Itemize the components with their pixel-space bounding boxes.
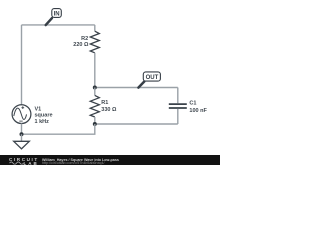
junction node at V1/ground [20, 132, 24, 136]
svg-text:1 kHz: 1 kHz [35, 119, 50, 125]
CircuitLab logo [9, 158, 41, 166]
label C1 value [189, 101, 207, 114]
svg-text:330 Ω: 330 Ω [101, 107, 117, 113]
ground symbol [14, 141, 30, 149]
svg-text:220 Ω: 220 Ω [73, 42, 89, 48]
wire bottom right from R1 to C1 [95, 123, 178, 125]
footer attribution bar [0, 155, 220, 165]
wire bottom jog from R1 node down and left to V1 [22, 124, 95, 134]
resistor R2 [90, 25, 99, 88]
junction node at R2/R1/OUT [93, 86, 97, 90]
svg-text:square: square [35, 113, 53, 119]
label R1 value [101, 100, 117, 113]
voltage source V1 [12, 105, 31, 135]
resistor R1 [90, 88, 99, 125]
label V1 value [35, 106, 53, 124]
wire left vertical from top wire to V1 [21, 25, 23, 105]
label R2 value [73, 36, 89, 48]
capacitor C1 [169, 88, 187, 125]
svg-text:IN: IN [54, 11, 60, 17]
wire top horizontal IN net [22, 24, 95, 26]
wire middle horizontal OUT net [95, 87, 178, 89]
svg-text:R1: R1 [101, 100, 108, 106]
footer text [42, 158, 320, 172]
svg-text:C1: C1 [189, 101, 196, 107]
node IN flag [46, 9, 62, 26]
wire V1 to ground [21, 134, 23, 141]
svg-text:100 nF: 100 nF [189, 108, 207, 114]
node OUT flag [138, 72, 160, 88]
svg-text:OUT: OUT [146, 75, 159, 81]
svg-text:V1: V1 [35, 106, 42, 112]
junction node at R1 bottom [93, 122, 97, 126]
